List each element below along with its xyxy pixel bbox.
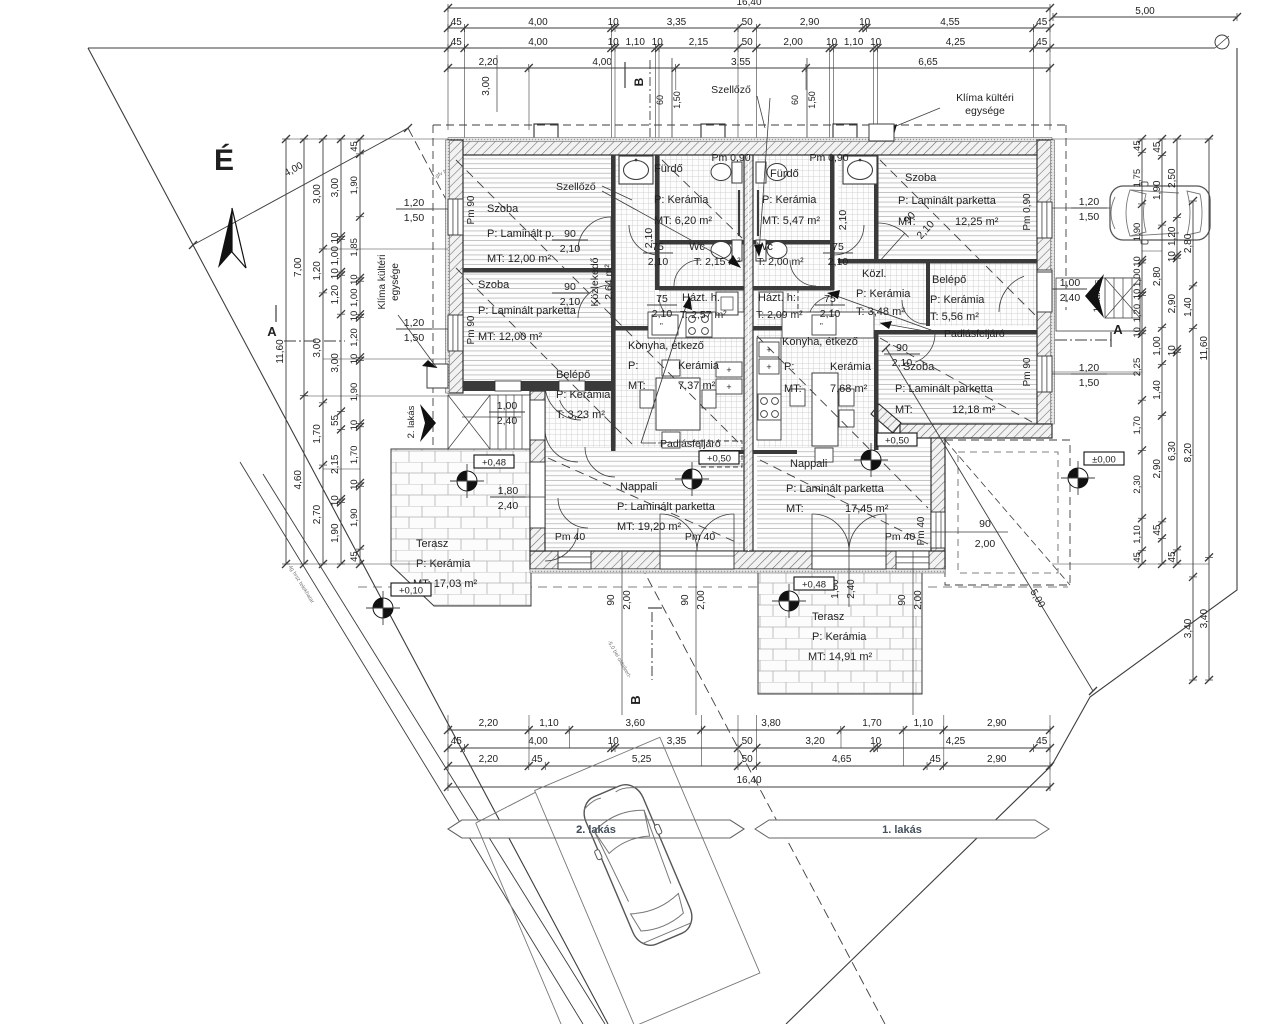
svg-text:1,50: 1,50 bbox=[1079, 377, 1100, 389]
left dim column 4 bbox=[340, 139, 342, 564]
svg-text:+0,48: +0,48 bbox=[802, 580, 826, 591]
svg-text:50: 50 bbox=[742, 736, 754, 747]
washbasin furdo left bbox=[619, 156, 653, 184]
outer wall right insulation bbox=[1051, 140, 1055, 424]
svg-text:+0,10: +0,10 bbox=[399, 586, 423, 597]
banner 2. lakas bbox=[448, 820, 744, 838]
outer wall top insulation bbox=[448, 138, 1052, 142]
wall belepo left outer bbox=[530, 391, 545, 551]
window bottom nappali-l 1 bbox=[558, 551, 591, 569]
wall chamfer szoba4 bbox=[871, 404, 901, 433]
wall hazt-r south bbox=[753, 326, 874, 331]
dimension chain top row 3 bbox=[448, 67, 1050, 69]
svg-text:2,20: 2,20 bbox=[479, 57, 499, 68]
wall furdo-l south bbox=[659, 240, 744, 245]
svg-text:Szoba: Szoba bbox=[478, 279, 510, 291]
entrance steps right bbox=[1105, 278, 1140, 318]
wall wc-r south bbox=[753, 286, 834, 291]
svg-text:1,20: 1,20 bbox=[349, 328, 360, 347]
svg-text:10: 10 bbox=[349, 311, 360, 322]
svg-text:1,20: 1,20 bbox=[1132, 304, 1143, 323]
door arc szoba4 right bbox=[915, 334, 935, 362]
door arc szoba1 from corridor bbox=[578, 217, 611, 250]
svg-text:11,60: 11,60 bbox=[275, 339, 286, 364]
svg-text:MT: 14,91 m²: MT: 14,91 m² bbox=[808, 651, 873, 663]
svg-text:T: 2,09 m²: T: 2,09 m² bbox=[756, 309, 803, 321]
door arc furdo left bbox=[629, 225, 659, 255]
level box +0,50 left bbox=[699, 451, 739, 464]
svg-text:2,10: 2,10 bbox=[648, 256, 669, 268]
svg-text:2,30: 2,30 bbox=[1132, 475, 1143, 494]
svg-text:1,20: 1,20 bbox=[1167, 226, 1178, 246]
svg-text:90: 90 bbox=[564, 228, 576, 240]
svg-text:Klíma kültéri: Klíma kültéri bbox=[956, 92, 1014, 104]
svg-text:Padlásfeljáró: Padlásfeljáró bbox=[944, 328, 1005, 340]
svg-text:P:: P: bbox=[784, 361, 794, 373]
wall furdo-r east bbox=[830, 155, 835, 290]
setback dashed line west bbox=[408, 128, 885, 1024]
roof diag dashed szoba4-r bbox=[880, 338, 1032, 422]
svg-text:1,50: 1,50 bbox=[1079, 211, 1100, 223]
svg-text:1,40: 1,40 bbox=[1183, 297, 1194, 317]
room floor furdo right bbox=[757, 155, 830, 240]
svg-text:55: 55 bbox=[330, 414, 341, 426]
right dim column 4 bbox=[1192, 201, 1194, 680]
svg-text:10: 10 bbox=[1167, 345, 1178, 357]
svg-text:10: 10 bbox=[826, 37, 838, 48]
level box +0,48 right bbox=[794, 577, 834, 590]
door arc furdo right bbox=[834, 225, 864, 255]
svg-text:7,68 m²: 7,68 m² bbox=[830, 383, 868, 395]
wall kitchen-r east bbox=[874, 330, 879, 450]
svg-text:+0,48: +0,48 bbox=[482, 458, 506, 469]
svg-text:Fürdő: Fürdő bbox=[770, 168, 799, 180]
roof overhang dashed bottom long bbox=[358, 586, 1068, 588]
svg-text:45: 45 bbox=[1152, 524, 1163, 536]
svg-text:2,00: 2,00 bbox=[913, 590, 924, 610]
shower furdo right bbox=[757, 190, 759, 236]
svg-text:A: A bbox=[1113, 322, 1123, 337]
svg-text:2,10: 2,10 bbox=[643, 228, 655, 249]
terrace right brick bbox=[758, 570, 922, 694]
svg-text:45: 45 bbox=[930, 754, 942, 765]
svg-text:1,00: 1,00 bbox=[497, 400, 518, 412]
section mark A right bbox=[1110, 332, 1112, 347]
level marker terrace right bbox=[779, 591, 799, 611]
svg-text:P: Laminált parketta: P: Laminált parketta bbox=[895, 383, 994, 395]
room floor kozl right bbox=[838, 263, 926, 326]
svg-text:75: 75 bbox=[656, 293, 668, 305]
level box +0,50 right bbox=[877, 433, 917, 446]
svg-text:P: Kerámia: P: Kerámia bbox=[654, 194, 709, 206]
door arc hazt left bbox=[659, 296, 685, 322]
svg-text:Szellőző: Szellőző bbox=[556, 181, 596, 193]
roof diag dashed szoba3-r bbox=[880, 160, 1035, 315]
roof diag dashed szoba-l long bbox=[456, 160, 742, 446]
svg-text:Szellőző: Szellőző bbox=[711, 84, 751, 96]
klima unit box top wall bbox=[869, 124, 894, 141]
kitchen table left bbox=[656, 378, 700, 430]
room floor konyha right bbox=[757, 330, 874, 450]
level box +-0,00 right bbox=[1084, 452, 1124, 465]
svg-text:7,00: 7,00 bbox=[293, 257, 304, 277]
svg-text:Nappali: Nappali bbox=[620, 481, 657, 493]
level marker nappali left bbox=[457, 471, 477, 491]
svg-text:1,20: 1,20 bbox=[330, 285, 341, 305]
entrance canopy right bbox=[1056, 278, 1140, 331]
left dim column 3 bbox=[322, 139, 324, 564]
wall belepo right side bbox=[611, 391, 616, 451]
door belepo-l west wall bbox=[530, 400, 545, 440]
kitchen counter top right bbox=[782, 312, 874, 338]
svg-text:11,60: 11,60 bbox=[1199, 336, 1210, 361]
svg-text:P: Kerámia: P: Kerámia bbox=[762, 194, 817, 206]
svg-text:Pm 40: Pm 40 bbox=[685, 531, 716, 543]
door nappali-l west wall bbox=[530, 462, 545, 528]
terrace door arcs right unit bbox=[812, 551, 886, 569]
level marker site right bbox=[1068, 468, 1088, 488]
kitchen counter side right bbox=[757, 338, 781, 440]
wall corridor left bbox=[611, 155, 616, 391]
svg-text:1,00: 1,00 bbox=[330, 246, 341, 266]
svg-text:1,20: 1,20 bbox=[1079, 196, 1100, 208]
svg-text:3,00: 3,00 bbox=[312, 184, 323, 204]
svg-text:3,60: 3,60 bbox=[625, 718, 645, 729]
svg-text:Pm 40: Pm 40 bbox=[885, 531, 916, 543]
svg-text:1,50: 1,50 bbox=[807, 91, 817, 109]
svg-text:10: 10 bbox=[608, 17, 620, 28]
room floor nappali right bbox=[757, 447, 931, 551]
room floor szoba3 right bbox=[878, 155, 1037, 259]
kitchen stove left bbox=[686, 313, 712, 337]
svg-text:B: B bbox=[628, 695, 643, 704]
svg-text:Pm 90: Pm 90 bbox=[1022, 357, 1033, 386]
dimension chain top row 2 bbox=[448, 47, 1050, 49]
svg-text:3,20: 3,20 bbox=[805, 736, 825, 747]
svg-text:60: 60 bbox=[655, 95, 665, 105]
svg-text:10: 10 bbox=[1132, 289, 1143, 300]
boiler box hazt left bbox=[716, 292, 738, 315]
svg-text:±0,00: ±0,00 bbox=[1092, 455, 1116, 466]
attic hatch dashed right bbox=[798, 287, 832, 312]
svg-text:Belépő: Belépő bbox=[556, 369, 590, 381]
svg-text:1,50: 1,50 bbox=[672, 91, 682, 109]
terrace door bottom left unit bbox=[660, 551, 734, 569]
svg-text:3,35: 3,35 bbox=[667, 17, 687, 28]
svg-text:1,75: 1,75 bbox=[1132, 169, 1143, 188]
svg-text:45: 45 bbox=[451, 37, 463, 48]
svg-text:Kerámia: Kerámia bbox=[830, 361, 872, 373]
door arc belepo right entrance bbox=[999, 276, 1024, 312]
svg-text:": " bbox=[660, 322, 663, 331]
vent stack line right bbox=[806, 58, 808, 155]
door arc wc left bbox=[674, 260, 700, 286]
svg-text:3,00: 3,00 bbox=[330, 177, 341, 197]
svg-text:Nappali: Nappali bbox=[790, 458, 827, 470]
svg-text:4,00: 4,00 bbox=[528, 37, 548, 48]
svg-text:T: 2,57 m²: T: 2,57 m² bbox=[680, 309, 727, 321]
svg-text:2. lakás: 2. lakás bbox=[576, 824, 616, 836]
svg-text:90: 90 bbox=[564, 281, 576, 293]
svg-text:4,00: 4,00 bbox=[528, 736, 548, 747]
svg-text:P: Laminált parketta: P: Laminált parketta bbox=[898, 195, 997, 207]
wall furdo-l west bbox=[655, 155, 660, 290]
arrow 1.lakas wedge bbox=[1085, 274, 1104, 318]
right dim column 5 bbox=[1208, 139, 1210, 680]
outer wall left insulation bbox=[446, 140, 450, 393]
svg-text:2,00: 2,00 bbox=[622, 590, 633, 610]
svg-text:12,25 m²: 12,25 m² bbox=[955, 216, 999, 228]
property corner marker circle bbox=[1215, 35, 1229, 49]
svg-text:2,10: 2,10 bbox=[652, 308, 673, 320]
svg-text:2,20: 2,20 bbox=[479, 754, 499, 765]
svg-text:Klíma kültéri: Klíma kültéri bbox=[377, 254, 388, 309]
svg-text:12,18 m²: 12,18 m² bbox=[952, 404, 996, 416]
svg-text:1,70: 1,70 bbox=[312, 424, 323, 444]
svg-text:2,10: 2,10 bbox=[560, 243, 581, 255]
wall szoba4 west bbox=[874, 330, 879, 402]
left dim horizontal connectors bbox=[286, 138, 448, 140]
svg-text:1,00: 1,00 bbox=[349, 289, 360, 308]
svg-text:45: 45 bbox=[1036, 17, 1048, 28]
room floor belepo left bbox=[545, 391, 611, 447]
wall szoba divider left bbox=[463, 268, 614, 273]
svg-text:1,80: 1,80 bbox=[498, 485, 519, 497]
room floor hazt right bbox=[757, 290, 834, 326]
boiler box hazt right bbox=[759, 292, 783, 315]
svg-text:T: 5,56 m²: T: 5,56 m² bbox=[930, 311, 979, 323]
svg-text:A: A bbox=[267, 324, 277, 339]
svg-text:Terasz: Terasz bbox=[416, 538, 448, 550]
svg-text:P: Laminált p.: P: Laminált p. bbox=[487, 228, 554, 240]
svg-text:1,90: 1,90 bbox=[349, 508, 360, 527]
level marker site left bbox=[373, 598, 393, 618]
svg-text:1,10: 1,10 bbox=[844, 37, 864, 48]
outer wall nappali right side bbox=[931, 438, 945, 569]
svg-text:Kerámia: Kerámia bbox=[678, 360, 720, 372]
room floor szoba1 left bbox=[463, 155, 611, 268]
roof diag dashed furdo-l bbox=[662, 160, 742, 238]
svg-text:90: 90 bbox=[680, 594, 691, 606]
room floor szoba4 right bbox=[878, 334, 1037, 424]
svg-text:2,64 m²: 2,64 m² bbox=[603, 264, 615, 300]
vent gap top wall right bbox=[762, 140, 797, 155]
dimension chain top row 16,40 bbox=[448, 7, 1050, 9]
parking bay outline bbox=[473, 737, 760, 1029]
svg-text:P: Kerámia: P: Kerámia bbox=[856, 288, 911, 300]
window bottom nappali-r bbox=[896, 551, 929, 569]
roof overhang dashed bottom-right corner bbox=[945, 440, 1070, 585]
dimension chain top row 1 bbox=[448, 27, 1050, 29]
door arc entrance left bbox=[545, 384, 581, 420]
svg-text:45: 45 bbox=[1152, 141, 1163, 153]
svg-text:2,15: 2,15 bbox=[689, 37, 709, 48]
svg-text:1,90: 1,90 bbox=[1132, 223, 1143, 242]
toilet wc right bbox=[756, 240, 766, 261]
svg-text:3,40: 3,40 bbox=[1183, 618, 1194, 638]
svg-text:egysége: egysége bbox=[965, 105, 1005, 117]
svg-text:+: + bbox=[766, 362, 771, 372]
svg-text:É: É bbox=[214, 143, 234, 177]
svg-text:+: + bbox=[726, 382, 731, 392]
svg-text:Házt. h:: Házt. h: bbox=[758, 292, 796, 304]
svg-text:Pm 90: Pm 90 bbox=[466, 195, 477, 224]
boundary dimension 4,00 bbox=[193, 128, 408, 245]
svg-text:MT:: MT: bbox=[895, 404, 913, 416]
door arc wc right bbox=[790, 260, 816, 286]
svg-text:": " bbox=[820, 322, 823, 331]
svg-text:2,00: 2,00 bbox=[783, 37, 803, 48]
svg-text:2,10: 2,10 bbox=[560, 296, 581, 308]
svg-text:50: 50 bbox=[742, 754, 754, 765]
door arc szoba3 right bbox=[878, 223, 909, 237]
driveway edge west bbox=[240, 462, 583, 1024]
svg-text:2,00: 2,00 bbox=[975, 538, 996, 550]
room floor kozlekedo left bbox=[615, 155, 655, 326]
svg-text:2,10: 2,10 bbox=[820, 308, 841, 320]
svg-text:3,00: 3,00 bbox=[330, 353, 341, 373]
door arc belepo-nappali left bbox=[585, 447, 615, 477]
svg-text:1,00: 1,00 bbox=[1152, 336, 1163, 356]
svg-text:45: 45 bbox=[1132, 140, 1143, 151]
door arc kozl right bbox=[902, 300, 926, 324]
chimney boxes top wall bbox=[534, 124, 558, 141]
svg-text:45: 45 bbox=[1036, 736, 1048, 747]
svg-text:T: 3,23 m²: T: 3,23 m² bbox=[556, 409, 605, 421]
svg-text:Szoba: Szoba bbox=[487, 203, 519, 215]
vent stack line B left bbox=[671, 58, 673, 155]
washbasin furdo right bbox=[843, 156, 877, 184]
room floor belepo right bbox=[930, 263, 1037, 326]
svg-text:MT: 12,00 m²: MT: 12,00 m² bbox=[478, 331, 543, 343]
svg-text:6,65: 6,65 bbox=[918, 57, 938, 68]
svg-text:90: 90 bbox=[896, 342, 908, 354]
svg-text:90: 90 bbox=[606, 594, 617, 606]
svg-text:4,00: 4,00 bbox=[528, 17, 548, 28]
outer wall right bbox=[1037, 140, 1052, 424]
svg-text:17,45 m²: 17,45 m² bbox=[845, 503, 889, 515]
door arc nappali-l terrace bbox=[558, 498, 588, 528]
svg-text:1,10: 1,10 bbox=[1132, 525, 1143, 544]
toilet wc left bbox=[732, 240, 742, 261]
room floor szoba2 left bbox=[463, 272, 611, 381]
roof diag dashed bottom-right bbox=[945, 440, 1070, 585]
svg-text:Pm 0,90: Pm 0,90 bbox=[711, 152, 750, 164]
svg-text:P: Laminált parketta: P: Laminált parketta bbox=[786, 483, 885, 495]
klima unit box left wall bbox=[427, 364, 448, 388]
dimension chain bottom row 3 bbox=[448, 765, 1050, 767]
wall niche-r east bbox=[874, 155, 879, 263]
svg-text:2,80: 2,80 bbox=[1183, 233, 1194, 253]
wall kitchen stub left bbox=[700, 450, 744, 454]
svg-text:3,00: 3,00 bbox=[481, 76, 492, 96]
room floor furdo left bbox=[659, 155, 744, 240]
right dim column 2 bbox=[1161, 139, 1163, 564]
svg-text:2,90: 2,90 bbox=[1152, 459, 1163, 479]
roof overhang dashed right bbox=[1065, 125, 1067, 310]
left dim column 7,00/4,60 bbox=[303, 139, 305, 564]
svg-text:10: 10 bbox=[1132, 256, 1143, 267]
window left wall szoba2 bbox=[448, 315, 463, 351]
dimension chain top-right 5,00 bbox=[1053, 16, 1237, 18]
door gap west porch bbox=[495, 381, 521, 391]
left dim column 5 bbox=[359, 139, 361, 564]
svg-text:2,90: 2,90 bbox=[800, 17, 820, 28]
svg-text:2,20: 2,20 bbox=[479, 718, 499, 729]
svg-text:4,60: 4,60 bbox=[293, 470, 304, 490]
svg-text:1. lakás: 1. lakás bbox=[882, 824, 922, 836]
dimension chain bottom row 2 bbox=[448, 747, 1050, 749]
svg-text:Fürdő: Fürdő bbox=[654, 163, 683, 175]
room floor nappali left bbox=[545, 447, 744, 551]
svg-text:45: 45 bbox=[451, 736, 463, 747]
svg-text:3,55: 3,55 bbox=[731, 57, 751, 68]
roof diag dashed nappali-l bbox=[548, 458, 740, 544]
svg-text:+0,50: +0,50 bbox=[707, 454, 731, 465]
right dim column 3 bbox=[1176, 139, 1178, 564]
svg-text:10: 10 bbox=[1167, 251, 1178, 263]
svg-text:1,00: 1,00 bbox=[1060, 277, 1081, 289]
svg-text:45: 45 bbox=[1132, 552, 1143, 563]
svg-text:Konyha, étkező: Konyha, étkező bbox=[782, 336, 858, 348]
svg-text:MT: 12,00 m²: MT: 12,00 m² bbox=[487, 253, 552, 265]
window right wall szoba3 bbox=[1037, 202, 1052, 238]
svg-text:P: Laminált parketta: P: Laminált parketta bbox=[617, 501, 716, 513]
svg-text:Pm 0,90: Pm 0,90 bbox=[1022, 193, 1033, 231]
property boundary west edge bbox=[88, 48, 608, 1024]
svg-text:Pm 40: Pm 40 bbox=[555, 531, 586, 543]
svg-text:2,10: 2,10 bbox=[837, 210, 849, 231]
section mark A left bbox=[275, 305, 277, 322]
outer wall bottom bbox=[530, 551, 945, 569]
room floor konyha left bbox=[615, 330, 744, 450]
svg-text:P: Kerámia: P: Kerámia bbox=[930, 294, 985, 306]
kitchen stove right bbox=[758, 394, 781, 420]
arrow klima left bbox=[398, 315, 437, 368]
section mark B bottom bbox=[648, 607, 662, 609]
svg-text:10: 10 bbox=[608, 37, 620, 48]
svg-text:16,40: 16,40 bbox=[736, 0, 761, 8]
entrance porch left bbox=[448, 395, 530, 449]
property boundary east edge bbox=[786, 48, 1237, 1024]
svg-text:1,10: 1,10 bbox=[625, 37, 645, 48]
kitchen sink left bbox=[652, 315, 678, 335]
level box +0,10 left bbox=[391, 583, 431, 596]
level marker nappali right bbox=[861, 450, 881, 470]
arrow szellozo-l to duct bbox=[602, 191, 738, 266]
attic hatch dashed left bbox=[700, 441, 742, 467]
svg-text:2,50: 2,50 bbox=[1167, 168, 1178, 188]
wall kitchen stub right bbox=[753, 450, 797, 454]
svg-text:10: 10 bbox=[349, 274, 360, 285]
svg-text:2,90: 2,90 bbox=[1167, 294, 1178, 314]
svg-text:1,90: 1,90 bbox=[349, 383, 360, 402]
property boundary north edge bbox=[88, 47, 1215, 49]
svg-text:1,70: 1,70 bbox=[349, 446, 360, 465]
site dim 5,00 rotated bbox=[886, 348, 1093, 691]
svg-text:10: 10 bbox=[349, 479, 360, 490]
svg-text:+0,50: +0,50 bbox=[885, 436, 909, 447]
svg-text:1,70: 1,70 bbox=[1132, 416, 1143, 435]
svg-text:egysége: egysége bbox=[390, 263, 401, 301]
svg-text:2,70: 2,70 bbox=[312, 504, 323, 524]
svg-text:4,25: 4,25 bbox=[946, 37, 966, 48]
svg-text:5,25: 5,25 bbox=[632, 754, 652, 765]
wall szoba4 north bbox=[838, 330, 1037, 335]
svg-text:MT:: MT: bbox=[786, 503, 804, 515]
north arrow bbox=[218, 208, 232, 268]
wall under szoba4 right bbox=[900, 424, 1052, 438]
